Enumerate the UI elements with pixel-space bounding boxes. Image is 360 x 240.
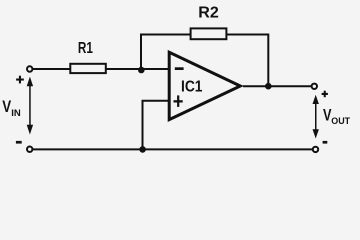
svg-text:R2: R2 bbox=[198, 5, 219, 22]
svg-text:IN: IN bbox=[11, 108, 21, 119]
svg-text:V: V bbox=[323, 107, 332, 125]
svg-text:R1: R1 bbox=[78, 40, 93, 57]
svg-text:OUT: OUT bbox=[331, 116, 350, 127]
svg-text:IC1: IC1 bbox=[181, 78, 203, 95]
svg-text:V: V bbox=[2, 98, 11, 116]
